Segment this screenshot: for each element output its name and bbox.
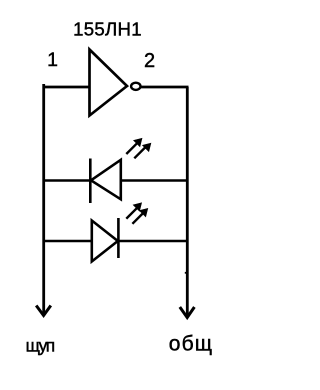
LED VD2 cathode bar	[117, 218, 120, 258]
LED VD1 light arrow a	[126, 138, 142, 154]
svg-text:2: 2	[144, 50, 155, 72]
wire left rail (probe)	[42, 84, 45, 314]
svg-text:1: 1	[47, 49, 58, 71]
LED VD1 light arrow b	[134, 143, 151, 158]
junction tick on right rail	[185, 272, 187, 274]
LED VD2 light arrow b	[132, 208, 147, 223]
wire left rail to LED VD2	[44, 240, 92, 243]
probe tip arrow (left)	[36, 306, 51, 316]
wire LED VD2 to right rail	[118, 240, 187, 243]
LED VD1 triangle (pointing left)	[91, 160, 121, 200]
wire LED VD1 to right rail	[121, 179, 188, 182]
inverter output bubble	[131, 83, 140, 90]
wire inverter output to right rail	[141, 86, 189, 89]
svg-text:общ: общ	[169, 332, 213, 355]
wire right rail (common)	[186, 87, 189, 316]
svg-text:155ЛН1: 155ЛН1	[73, 18, 142, 39]
LED VD2 light arrow a	[126, 203, 141, 219]
common tip arrow (right)	[180, 307, 195, 318]
svg-text:щуп: щуп	[26, 335, 55, 355]
op-amp U1 inverter triangle	[90, 50, 128, 116]
wire input to inverter	[43, 86, 90, 89]
LED VD2 triangle (pointing right)	[92, 221, 118, 262]
LED VD1 cathode bar	[89, 159, 92, 204]
wire left rail to LED VD1	[44, 179, 91, 182]
